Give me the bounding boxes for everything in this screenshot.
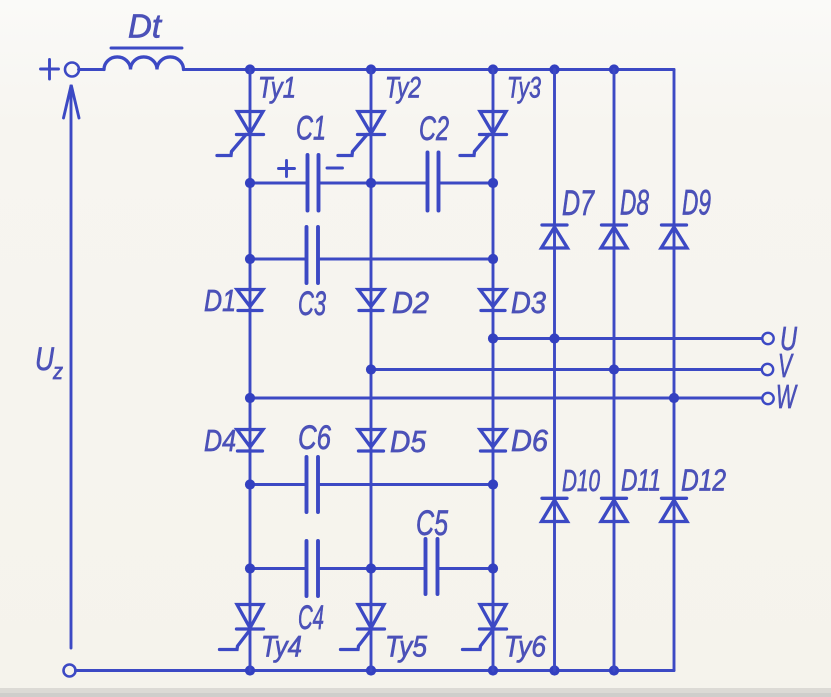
svg-text:D10: D10 [562, 463, 600, 498]
svg-text:D2: D2 [392, 285, 429, 320]
inductor Dt [104, 57, 184, 70]
svg-text:D12: D12 [681, 463, 726, 498]
node C6 row col3 [488, 479, 498, 489]
node top rail col2 [366, 64, 376, 74]
wire top rail [184, 68, 675, 71]
svg-text:Ty6: Ty6 [504, 631, 546, 664]
thyristor Ty1 [217, 112, 264, 156]
node V row col2 [366, 364, 376, 374]
svg-text:Ty4: Ty4 [261, 631, 302, 664]
node top rail col3 [488, 64, 498, 74]
svg-text:U: U [35, 341, 55, 377]
capacitor C4 [307, 541, 319, 596]
thyristor Ty2 [338, 112, 385, 156]
capacitor C3 [307, 227, 319, 283]
thyristor Ty5 [341, 605, 385, 650]
wire V row [371, 368, 762, 371]
node top rail col4 [549, 64, 559, 74]
svg-text:C6: C6 [298, 419, 331, 457]
svg-text:Ty1: Ty1 [258, 72, 296, 105]
svg-text:D5: D5 [390, 424, 427, 459]
node bottom rail col4 [549, 665, 559, 675]
wire column 2 vertical [370, 70, 373, 671]
wire C3 row segment left [250, 258, 305, 261]
diode D8 [601, 225, 627, 248]
wire column 5 vertical [613, 70, 616, 671]
svg-text:D3: D3 [511, 285, 546, 320]
thyristor Ty6 [463, 605, 507, 650]
svg-text:D8: D8 [620, 184, 649, 223]
wire C4 row segment right [440, 567, 494, 570]
node C1 row col2 [366, 178, 376, 188]
wire C1 row segment right [441, 182, 494, 185]
wire column 3 vertical [492, 70, 495, 671]
wire C6 row segment right [320, 483, 493, 486]
svg-text:Ty5: Ty5 [385, 631, 427, 664]
capacitor C1 [308, 155, 319, 211]
C1 plus mark [279, 161, 295, 177]
svg-text:z: z [52, 359, 63, 384]
svg-text:D7: D7 [562, 184, 595, 223]
Uz measuring arrow [64, 85, 80, 648]
wire U row [493, 337, 762, 340]
node bottom rail col5 [609, 665, 619, 675]
terminal W [762, 393, 773, 404]
capacitor C2 [428, 153, 439, 211]
diode D12 [661, 498, 687, 521]
node U row col3 [488, 333, 498, 343]
svg-text:Ty2: Ty2 [385, 72, 421, 105]
diode D6 [480, 430, 506, 452]
wire column 1 vertical [249, 70, 252, 671]
diode D10 [542, 498, 568, 521]
diode D7 [542, 225, 568, 248]
node V row col5 [609, 364, 619, 374]
diode D2 [358, 290, 384, 311]
wire C3 row segment right [320, 258, 493, 261]
terminal V [762, 364, 773, 375]
wire C6 row segment left [250, 483, 305, 486]
input terminal top [65, 63, 79, 77]
node bottom rail col2 [366, 665, 376, 675]
wire W row [250, 397, 762, 400]
node top rail col1 [245, 64, 255, 74]
node C4 row col2 [366, 563, 376, 573]
thyristor Ty4 [220, 605, 264, 650]
node C3 row col1 [245, 254, 255, 264]
svg-text:D9: D9 [682, 184, 711, 223]
node top rail col5 [609, 64, 619, 74]
node bottom rail col1 [245, 665, 255, 675]
node C1 row col1 [245, 178, 255, 188]
wire C1 row segment left [250, 182, 306, 185]
node C1 row col3 [488, 178, 498, 188]
node C4 row col3 [488, 563, 498, 573]
svg-text:D6: D6 [511, 423, 549, 458]
wire terminal to inductor [79, 68, 105, 71]
svg-text:D4: D4 [204, 423, 236, 458]
node U row col4 [549, 333, 559, 343]
svg-text:C3: C3 [298, 285, 326, 323]
svg-text:C5: C5 [416, 504, 448, 543]
diode D11 [601, 498, 627, 521]
thyristor Ty3 [460, 112, 507, 156]
terminal U [762, 333, 773, 344]
wire column 4 vertical [553, 70, 556, 671]
svg-text:Dt: Dt [128, 8, 163, 45]
plus input polarity sign [41, 60, 59, 80]
svg-text:D11: D11 [621, 463, 661, 498]
capacitor C5 [426, 539, 438, 594]
wire C4 row segment left [250, 567, 305, 570]
wire bottom rail [76, 669, 675, 672]
svg-text:C2: C2 [419, 110, 449, 148]
node C4 row col1 [245, 563, 255, 573]
wire C4 row segment middle [320, 567, 424, 570]
diode D9 [661, 225, 687, 248]
diode D4 [237, 430, 263, 452]
svg-text:W: W [776, 378, 798, 415]
node C6 row col1 [245, 479, 255, 489]
svg-text:C1: C1 [296, 110, 326, 148]
node C3 row col3 [488, 254, 498, 264]
wire C1 row segment middle [321, 182, 427, 185]
node W row col1 [245, 393, 255, 403]
node bottom rail col3 [488, 665, 498, 675]
node W row col6 [669, 393, 679, 403]
wire column 6 vertical [673, 70, 676, 671]
capacitor C6 [307, 457, 319, 512]
svg-text:D1: D1 [204, 283, 236, 318]
inductor core bar [111, 47, 182, 50]
output terminal bottom-left [64, 665, 76, 677]
C1 minus mark [327, 167, 343, 170]
diode D5 [358, 430, 384, 452]
diode D1 [237, 290, 263, 311]
diode D3 [480, 290, 506, 311]
svg-text:Ty3: Ty3 [507, 72, 541, 105]
